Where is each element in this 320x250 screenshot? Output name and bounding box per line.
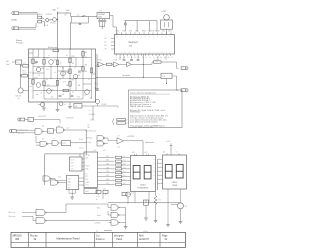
svg-text:WHT: WHT (135, 31, 139, 33)
svg-text:u2: u2 (35, 63, 37, 65)
svg-text:D.L: D.L (30, 62, 32, 64)
svg-text:Handheld: Handheld (122, 75, 130, 77)
svg-text:u1u7: u1u7 (68, 185, 72, 187)
svg-text:C7: C7 (58, 125, 60, 127)
svg-text:2e: 2e (149, 57, 151, 59)
svg-text:RG7B: RG7B (23, 73, 27, 75)
svg-text:u713: u713 (106, 167, 109, 169)
svg-text:u714: u714 (106, 171, 109, 173)
svg-text:C6: C6 (46, 79, 48, 81)
svg-text:4u1: 4u1 (123, 175, 125, 177)
svg-text:R1: R1 (159, 199, 161, 201)
svg-text:4u: 4u (120, 57, 122, 59)
svg-text:Run: Run (97, 207, 100, 209)
svg-text:C58 D4: C58 D4 (37, 14, 42, 16)
svg-text:WHLT: WHLT (142, 31, 146, 33)
svg-text:A PWR3: A PWR3 (128, 135, 135, 138)
svg-text:Rev/: Rev/ (139, 236, 144, 238)
svg-text:Smart ut: Smart ut (96, 238, 105, 241)
svg-text:D4: D4 (132, 193, 134, 195)
svg-text:uses (Memory 5) multi-switch).: uses (Memory 5) multi-switch). (130, 120, 158, 123)
svg-text:4u1: 4u1 (123, 183, 125, 185)
svg-text:C31: C31 (65, 72, 68, 74)
svg-text:1.2.9: 1.2.9 (117, 147, 121, 149)
svg-text:BB: BB (65, 14, 67, 16)
svg-text:u712: u712 (106, 164, 109, 166)
svg-text:5e: 5e (134, 57, 136, 59)
svg-text:A BAT: A BAT (12, 18, 18, 21)
svg-text:HUNDREDS: HUNDREDS (138, 188, 149, 190)
svg-text:B2: B2 (105, 42, 107, 44)
svg-text:Enclosure: Enclosure (48, 46, 58, 49)
svg-text:R8: R8 (78, 85, 80, 87)
svg-text:u716: u716 (106, 179, 109, 181)
svg-text:N.1: N.1 (57, 8, 60, 10)
svg-text:R6: R6 (85, 64, 87, 66)
svg-text:Segment: Segment (129, 41, 139, 44)
svg-text:4u: 4u (74, 67, 76, 69)
svg-text:u717: u717 (106, 183, 109, 185)
svg-text:C1: C1 (85, 57, 87, 59)
svg-text:D.1: D.1 (16, 62, 19, 64)
svg-text:u4u: u4u (71, 166, 74, 168)
svg-text:u3: u3 (62, 94, 64, 96)
svg-text:4.1B: 4.1B (63, 82, 66, 84)
svg-text:u2: u2 (88, 79, 90, 81)
svg-text:SG2: SG2 (162, 31, 165, 33)
svg-text:u1: u1 (48, 55, 50, 57)
svg-text:u5: u5 (30, 72, 32, 74)
svg-text:R2: R2 (85, 52, 87, 54)
svg-text:u7|4u|4B: u7|4u|4B (89, 114, 95, 116)
svg-text:2e: 2e (145, 57, 147, 59)
svg-text:DL36-V4: DL36-V4 (46, 14, 52, 16)
svg-text:u1b: u1b (97, 64, 100, 66)
svg-text:R11: R11 (35, 77, 38, 79)
svg-text:4.1u: 4.1u (30, 59, 33, 61)
svg-text:Y-OSC: Y-OSC (161, 11, 167, 13)
svg-text:u1.4: u1.4 (66, 128, 69, 130)
svg-text:R23: R23 (46, 57, 49, 59)
svg-text:u?u7: u?u7 (93, 150, 96, 152)
svg-text:Q2: Q2 (185, 206, 187, 208)
svg-text:C32: C32 (53, 60, 56, 62)
svg-text:C30: C30 (41, 68, 44, 70)
svg-text:u9: u9 (66, 55, 68, 57)
svg-text:PrW: PrW (85, 168, 89, 170)
svg-text:4u1: 4u1 (123, 156, 125, 158)
svg-text:4093: 4093 (98, 17, 102, 19)
svg-text:C.B: C.B (23, 63, 26, 65)
svg-text:C9: C9 (48, 131, 50, 133)
svg-text:u7B, RG74: u7B, RG74 (38, 116, 46, 118)
svg-text:3u: 3u (138, 57, 140, 59)
svg-text:C.7z: C.7z (71, 160, 75, 162)
svg-text:4 u: 4 u (89, 110, 91, 112)
svg-text:U14: U14 (85, 158, 88, 160)
svg-text:u7|44: u7|44 (85, 182, 89, 184)
svg-text:Hundreds: Hundreds (145, 142, 154, 144)
svg-text:NB: NB (88, 127, 90, 129)
svg-text:B3: B3 (105, 45, 107, 47)
svg-text:NL: NL (88, 124, 90, 126)
svg-text:u711: u711 (85, 185, 88, 187)
svg-text:4u: 4u (96, 199, 98, 201)
svg-text:u4b: u4b (84, 95, 87, 97)
svg-text:4u7: 4u7 (42, 139, 45, 141)
svg-text:u4: u4 (47, 69, 49, 71)
svg-text:u4 u1: u4 u1 (96, 196, 100, 198)
svg-text:D.Ratio: D.Ratio (95, 221, 101, 224)
svg-text:G.Ratio: G.Ratio (87, 137, 93, 140)
svg-text:TENS: TENS (172, 185, 178, 187)
svg-text:7a: 7a (127, 57, 129, 59)
svg-text:C5: C5 (51, 90, 53, 92)
svg-text:4u1: 4u1 (123, 167, 125, 169)
svg-text:LED1: LED1 (140, 185, 146, 187)
svg-text:u0: u0 (64, 104, 66, 106)
svg-text:u4|1: u4|1 (163, 152, 166, 154)
svg-text:4u1: 4u1 (123, 171, 125, 173)
svg-text:C14: C14 (62, 143, 65, 145)
svg-text:4?u: 4?u (85, 173, 88, 175)
svg-text:Stop: Stop (97, 214, 101, 217)
svg-text:4B: 4B (75, 106, 77, 108)
svg-text:R25: R25 (72, 56, 75, 58)
svg-text:Pawn: Pawn (116, 239, 123, 241)
svg-text:C4: C4 (59, 78, 61, 80)
svg-text:5a: 5a (171, 57, 173, 59)
svg-text:u4|11: u4|11 (132, 152, 136, 154)
svg-text:C8: C8 (42, 126, 44, 128)
svg-text:u715: u715 (106, 175, 109, 177)
svg-text:8e: 8e (164, 57, 166, 59)
svg-text:HD3: HD3 (23, 71, 26, 73)
svg-text:Battery: Battery (16, 39, 22, 42)
svg-text:da 6/1/79: da 6/1/79 (139, 239, 149, 241)
svg-text:137: 137 (71, 163, 74, 165)
svg-text:u44: u44 (68, 187, 71, 189)
svg-text:Maintenance Panel: Maintenance Panel (56, 237, 79, 241)
svg-text:u7: u7 (126, 120, 128, 122)
svg-text:C12: C12 (38, 75, 41, 77)
svg-text:u7: u7 (60, 63, 62, 65)
svg-text:Clkrlse: Clkrlse (79, 148, 84, 150)
svg-text:4b: 4b (142, 57, 144, 59)
svg-text:u7: u7 (126, 123, 128, 125)
svg-text:des igner: des igner (114, 235, 124, 238)
svg-text:Pr|4?: Pr|4? (85, 191, 89, 193)
svg-text:u711: u711 (106, 160, 109, 162)
svg-text:u7: u7 (53, 138, 55, 140)
svg-text:u17: u17 (40, 93, 43, 95)
svg-text:Ratio dn: Ratio dn (9, 215, 16, 218)
svg-text:u8: u8 (54, 72, 56, 74)
svg-text:R9: R9 (72, 79, 74, 81)
svg-text:+1.5V: +1.5V (166, 141, 172, 143)
svg-text:BQ 2u1: BQ 2u1 (51, 23, 56, 25)
svg-text:R22: R22 (35, 57, 38, 59)
svg-text:Proj ea: Proj ea (30, 235, 38, 238)
svg-text:C16: C16 (58, 177, 61, 179)
svg-text:4u1: 4u1 (123, 164, 125, 166)
svg-text:u24: u24 (71, 169, 74, 171)
svg-text:4u1: 4u1 (123, 179, 125, 181)
svg-text:u1: u1 (176, 152, 178, 154)
svg-text:VSS: VSS (129, 31, 132, 33)
svg-text:C41: C41 (103, 188, 106, 190)
svg-text:u4|11: u4|11 (144, 152, 148, 154)
svg-text:C52: C52 (162, 76, 165, 78)
svg-text:Ratio up: Ratio up (9, 211, 16, 214)
svg-text:7b: 7b (160, 57, 162, 59)
svg-text:u0u: u0u (72, 92, 75, 94)
svg-text:C.1: C.1 (29, 119, 32, 121)
svg-text:Principle: Principle (16, 42, 23, 45)
svg-text:VD2: VD2 (168, 31, 171, 33)
svg-text:Schd: Schd (79, 139, 83, 141)
svg-text:u1: u1 (72, 63, 74, 65)
svg-text:LED2: LED2 (172, 182, 178, 184)
svg-text:4u1: 4u1 (30, 86, 33, 88)
svg-text:C40: C40 (96, 188, 99, 190)
svg-text:u711: u711 (106, 156, 109, 158)
svg-text:C3: C3 (78, 75, 80, 77)
svg-text:V.P.V.P.I.B.L.B: V.P.V.P.I.B.L.B (86, 130, 96, 132)
svg-text:PrW.4: PrW.4 (85, 166, 89, 168)
svg-text:C.Dta: C.Dta (87, 141, 91, 144)
svg-text:P71: P71 (85, 176, 88, 178)
svg-text:u8: u8 (66, 85, 68, 87)
svg-text:4u7: 4u7 (156, 61, 159, 63)
svg-text:Continue up: Continue up (18, 128, 28, 131)
svg-text:4u1: 4u1 (123, 160, 125, 162)
svg-text:u6: u6 (36, 94, 38, 96)
svg-text:u7B RG74: u7B RG74 (66, 118, 74, 120)
svg-text:SEGCH: SEGCH (149, 31, 156, 33)
svg-text:C10: C10 (68, 178, 71, 180)
svg-text:for C35, 1985 except M/C: for C35, 1985 except M/C (130, 126, 154, 129)
svg-text:CL/BRK: CL/BRK (101, 104, 106, 106)
svg-text:u9: u9 (85, 71, 87, 73)
svg-text:MROS/A: MROS/A (13, 235, 23, 238)
svg-text:B1: B1 (105, 38, 107, 40)
svg-text:Page: Page (162, 236, 168, 238)
svg-text:4017: 4017 (68, 181, 72, 183)
svg-text:4.7: 4.7 (118, 136, 120, 138)
svg-text:C.a: C.a (155, 59, 158, 61)
svg-text:Circuit reference designators:: Circuit reference designators: (130, 91, 157, 94)
svg-text:NMOS 100u B Ceramic: NMOS 100u B Ceramic (130, 105, 151, 108)
svg-text:TB9K/2000: TB9K/2000 (130, 112, 141, 114)
svg-text:R4: R4 (62, 68, 64, 70)
svg-text:Gnd: Gnd (6, 64, 9, 66)
svg-text:u?4: u?4 (103, 150, 106, 152)
svg-text:8b: 8b (168, 57, 170, 59)
svg-text:C23: C23 (77, 97, 80, 99)
svg-text:C24: C24 (51, 97, 54, 99)
